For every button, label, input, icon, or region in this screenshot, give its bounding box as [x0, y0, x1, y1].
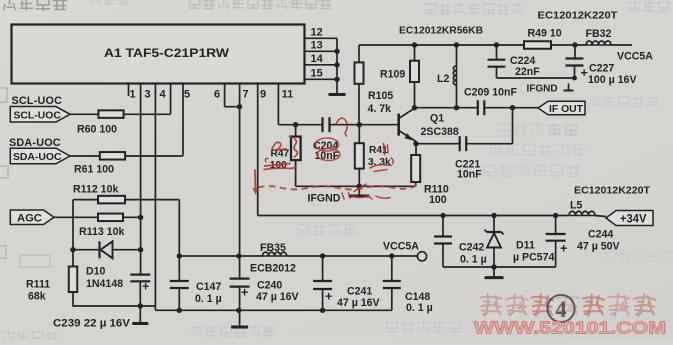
- svg-text:+: +: [581, 66, 588, 80]
- svg-text:2SC388: 2SC388: [421, 126, 459, 138]
- svg-text:10nF: 10nF: [457, 168, 482, 180]
- svg-text:R111: R111: [26, 279, 50, 291]
- svg-text:100: 100: [429, 194, 447, 206]
- svg-text:R112 10k: R112 10k: [73, 184, 118, 196]
- svg-text:C147: C147: [196, 281, 221, 293]
- svg-text:VCC5A: VCC5A: [383, 241, 419, 253]
- svg-text:13: 13: [311, 40, 323, 52]
- svg-text:47 µ 16V: 47 µ 16V: [256, 291, 299, 303]
- svg-text:R61 100: R61 100: [74, 164, 114, 176]
- svg-text:1: 1: [129, 89, 135, 101]
- svg-text:R109: R109: [380, 69, 405, 81]
- svg-text:A1 TAF5-C21P1RW: A1 TAF5-C21P1RW: [104, 46, 229, 60]
- svg-text:ECB2012: ECB2012: [250, 263, 296, 275]
- svg-text:R49 10: R49 10: [528, 28, 562, 40]
- svg-text:+: +: [560, 242, 567, 256]
- svg-text:SDA-UOC: SDA-UOC: [13, 152, 62, 163]
- svg-text:R60 100: R60 100: [77, 124, 117, 136]
- svg-text:4. 7k: 4. 7k: [368, 103, 392, 115]
- svg-text:9: 9: [260, 89, 266, 101]
- svg-text:47 µ 50V: 47 µ 50V: [577, 241, 620, 253]
- svg-text:14: 14: [311, 53, 324, 65]
- svg-text:5: 5: [184, 89, 190, 101]
- svg-text:VCC5A: VCC5A: [617, 51, 653, 63]
- svg-text:+: +: [325, 290, 332, 304]
- svg-text:0. 1 µ: 0. 1 µ: [406, 302, 433, 314]
- svg-text:AGC: AGC: [17, 213, 42, 225]
- svg-text:+: +: [241, 286, 248, 300]
- svg-text:6: 6: [214, 89, 220, 101]
- svg-text:µ PC574: µ PC574: [513, 252, 555, 264]
- svg-text:IFGND: IFGND: [308, 193, 341, 205]
- svg-text:R105: R105: [368, 90, 393, 102]
- svg-text:FB32: FB32: [586, 28, 612, 40]
- svg-text:D10: D10: [86, 266, 106, 278]
- svg-text:C242: C242: [459, 242, 484, 254]
- svg-text:100 µ 16V: 100 µ 16V: [588, 74, 637, 86]
- svg-text:SCL-UOC: SCL-UOC: [14, 110, 62, 121]
- svg-text:L5: L5: [570, 200, 582, 212]
- svg-text:IF OUT: IF OUT: [549, 104, 584, 115]
- svg-text:R113 10k: R113 10k: [79, 226, 124, 238]
- svg-text:C227: C227: [589, 63, 614, 75]
- svg-text:1N4148: 1N4148: [86, 278, 123, 290]
- svg-text:SCL-UOC: SCL-UOC: [12, 95, 63, 107]
- svg-text:IFGND: IFGND: [527, 84, 558, 95]
- svg-text:+34V: +34V: [620, 212, 647, 226]
- svg-text:EC12012KR56KB: EC12012KR56KB: [399, 26, 483, 37]
- svg-text:C241: C241: [347, 286, 372, 298]
- svg-text:C244: C244: [588, 229, 613, 241]
- svg-text:68k: 68k: [28, 291, 46, 303]
- svg-text:C209 10nF: C209 10nF: [464, 87, 518, 99]
- svg-text:7: 7: [242, 89, 248, 101]
- svg-text:EC12012K220T: EC12012K220T: [538, 11, 618, 22]
- svg-text:0. 1 µ: 0. 1 µ: [460, 254, 487, 266]
- svg-text:+: +: [142, 280, 149, 294]
- svg-text:WWW.520101.COM: WWW.520101.COM: [474, 318, 666, 338]
- svg-text:3: 3: [144, 89, 150, 101]
- svg-text:C240: C240: [257, 280, 282, 292]
- svg-text:0. 1 µ: 0. 1 µ: [195, 293, 222, 305]
- svg-text:12: 12: [311, 27, 323, 39]
- svg-text:15: 15: [311, 68, 323, 80]
- svg-text:D11: D11: [516, 240, 535, 252]
- svg-text:L2: L2: [437, 73, 449, 85]
- svg-text:SDA-UOC: SDA-UOC: [9, 137, 61, 149]
- svg-text:EC12012K220T: EC12012K220T: [574, 186, 650, 197]
- svg-text:FB35: FB35: [260, 242, 286, 254]
- svg-text:22nF: 22nF: [515, 66, 540, 78]
- svg-text:C239 22 µ 16V: C239 22 µ 16V: [53, 318, 131, 330]
- svg-text:Q1: Q1: [430, 113, 444, 125]
- svg-text:11: 11: [282, 89, 294, 101]
- svg-text:47 µ 16V: 47 µ 16V: [337, 297, 380, 309]
- svg-text:4: 4: [159, 89, 166, 101]
